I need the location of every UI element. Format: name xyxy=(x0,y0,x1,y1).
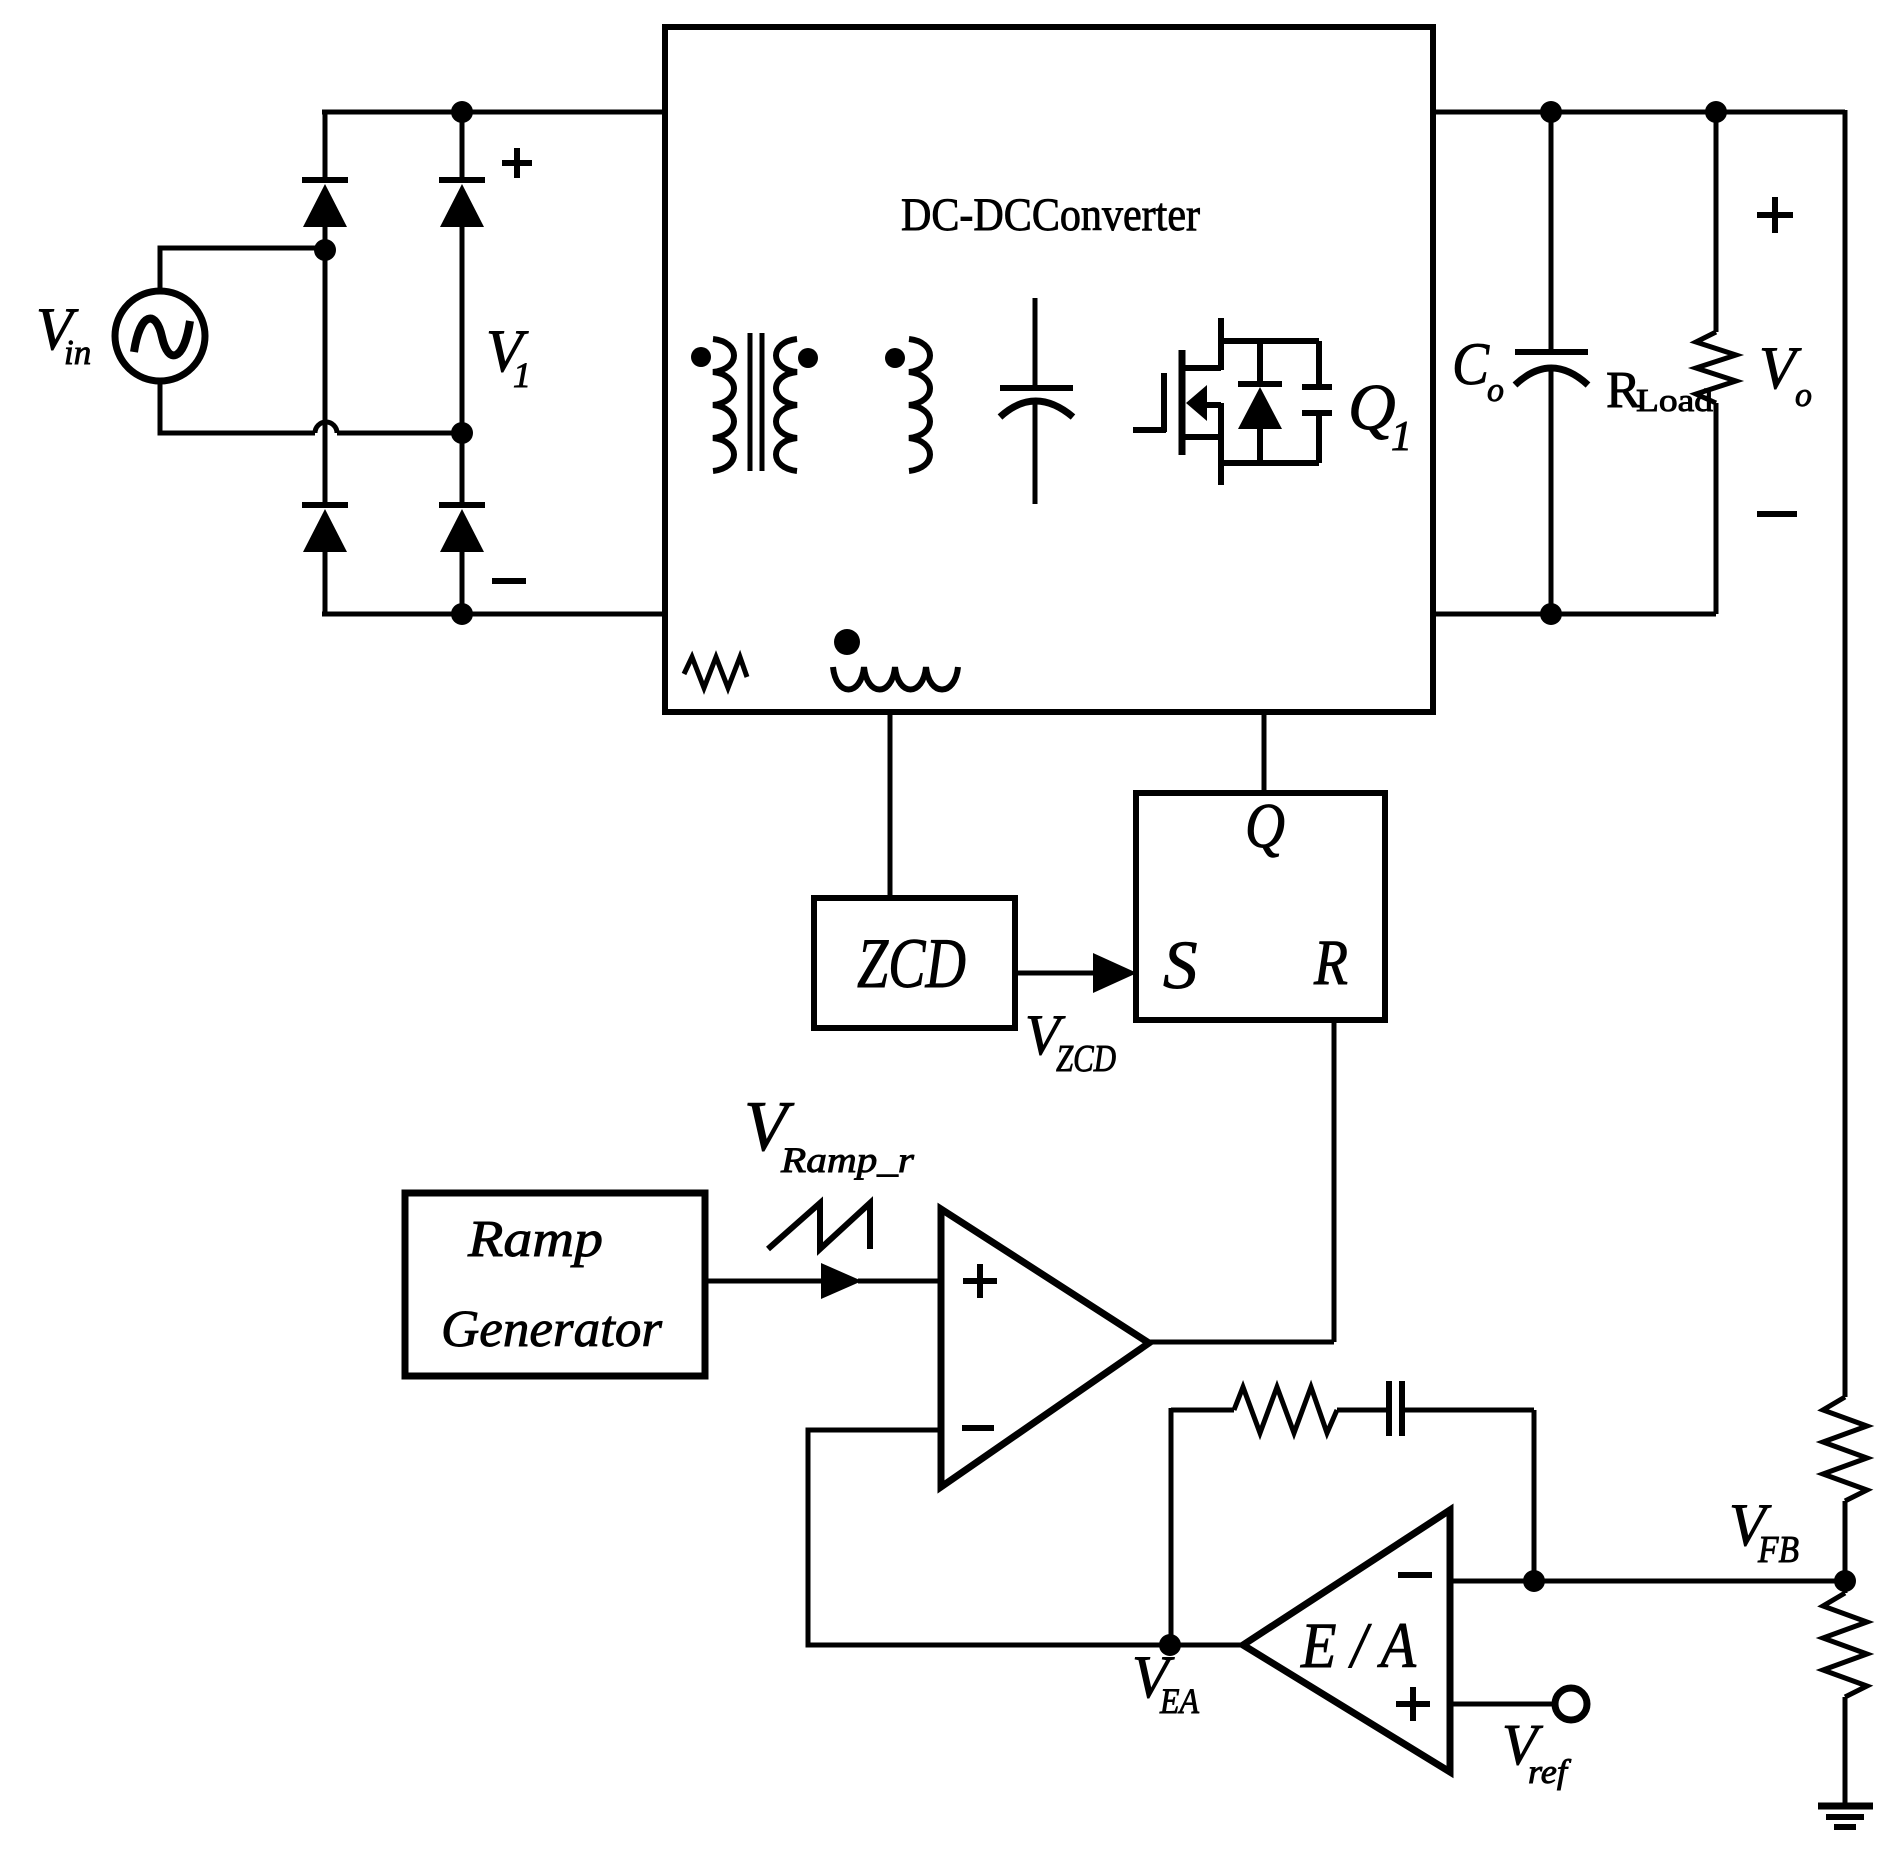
svg-text:ref: ref xyxy=(1528,1754,1572,1791)
svg-text:Load: Load xyxy=(1636,382,1713,418)
svg-text:o: o xyxy=(1795,377,1812,414)
svg-text:C: C xyxy=(1452,331,1490,397)
svg-text:ZCD: ZCD xyxy=(857,925,966,1003)
svg-text:Ramp: Ramp xyxy=(467,1211,603,1268)
svg-text:DC-DCConverter: DC-DCConverter xyxy=(901,189,1200,241)
svg-text:ZCD: ZCD xyxy=(1056,1038,1116,1080)
svg-text:o: o xyxy=(1487,372,1504,409)
svg-text:Generator: Generator xyxy=(441,1301,663,1358)
svg-text:1: 1 xyxy=(1391,414,1412,460)
svg-text:EA: EA xyxy=(1159,1681,1200,1721)
svg-text:FB: FB xyxy=(1757,1529,1799,1571)
svg-text:Q: Q xyxy=(1245,791,1285,861)
svg-text:in: in xyxy=(64,333,91,372)
svg-text:1: 1 xyxy=(513,355,531,395)
svg-text:R: R xyxy=(1313,927,1348,999)
svg-text:S: S xyxy=(1163,927,1198,1003)
svg-text:Ramp_r: Ramp_r xyxy=(780,1140,915,1180)
svg-text:E / A: E / A xyxy=(1300,1610,1416,1682)
svg-text:Q: Q xyxy=(1348,371,1396,444)
